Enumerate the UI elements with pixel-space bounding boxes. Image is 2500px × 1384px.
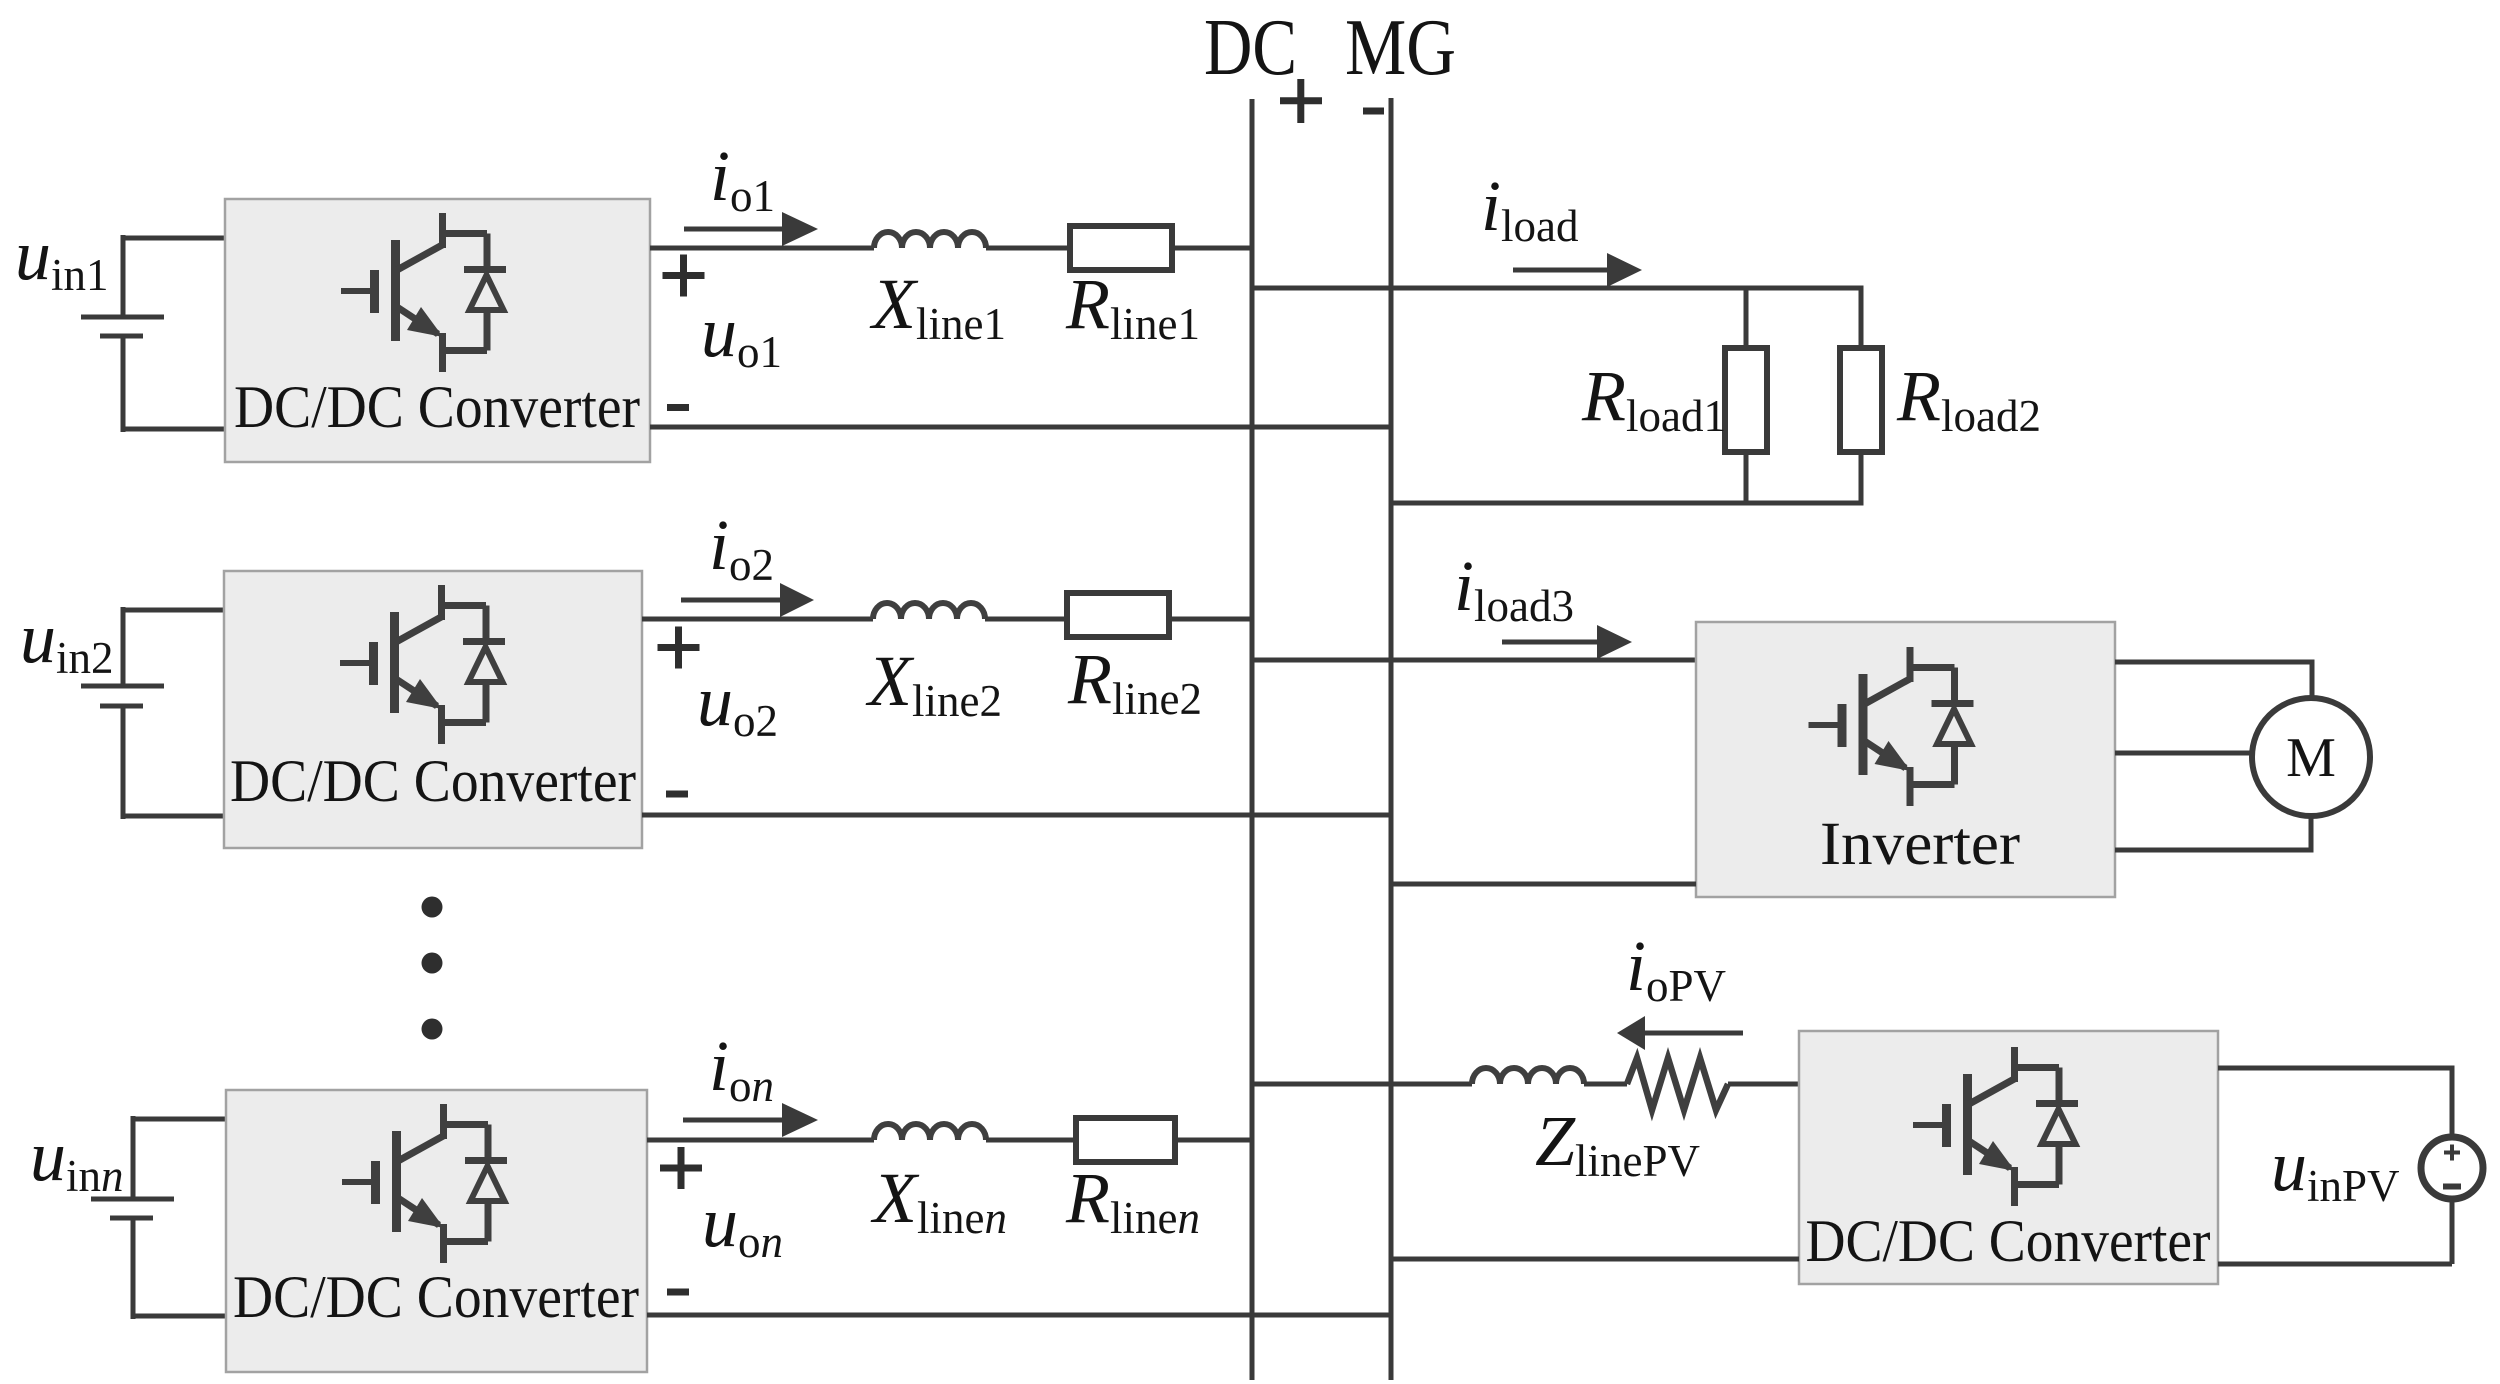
DC/DC converter PV box: [1799, 1031, 2218, 1284]
DC/DC converter 2 box: [224, 571, 642, 848]
node + output polarity converter 2: [658, 627, 700, 669]
battery u_in2 short plate: [100, 704, 143, 709]
transistor IGBT icon converter 1: [341, 213, 506, 372]
node + output polarity converter 1: [663, 255, 705, 297]
svg-text:Inverter: Inverter: [1820, 811, 2020, 878]
wire resistor to positive bus row 2: [1169, 617, 1252, 622]
arrow i_oPV pointing to bus: [1639, 1031, 1743, 1036]
node - output polarity converter n: [667, 1289, 689, 1296]
svg-text:DC/DC Converter: DC/DC Converter: [230, 748, 636, 814]
wire inverter to motor middle phase: [2115, 751, 2252, 756]
wire PV converter return to negative bus: [1391, 1257, 1799, 1262]
wire inductor to resistor row 1: [986, 246, 1070, 251]
inverter box: [1696, 622, 2115, 897]
svg-text:uinPV: uinPV: [2271, 1126, 2400, 1211]
wire PV branch from positive bus: [1252, 1082, 1472, 1087]
wire converter 2 positive output: [642, 617, 873, 622]
wire battery u_in2 bottom lead: [123, 814, 230, 819]
transistor IGBT icon converter n: [342, 1104, 507, 1263]
resistor R_linen: [1076, 1118, 1175, 1162]
resistor R_load2: [1840, 348, 1882, 452]
wire battery u_inn top lead: [133, 1117, 232, 1122]
motor M: [2252, 698, 2370, 816]
wire inductor to resistor Z_linePV: [1584, 1082, 1627, 1087]
svg-text:Rlinen: Rlinen: [1065, 1158, 1200, 1243]
wire battery u_in2 upper vertical: [121, 607, 126, 686]
resistor R_line1: [1070, 226, 1172, 270]
wire i_load3 from positive bus to inverter: [1252, 658, 1696, 663]
svg-text:uon: uon: [702, 1182, 783, 1267]
arrow i_on: [683, 1118, 788, 1123]
svg-text:ZlinePV: ZlinePV: [1535, 1101, 1700, 1186]
wire inverter to motor top phase: [2115, 660, 2312, 699]
svg-text:Rline1: Rline1: [1065, 264, 1200, 349]
transistor IGBT icon converter 2: [340, 585, 505, 744]
inductor X_linen: [874, 1124, 986, 1140]
battery u_in1 short plate: [100, 334, 143, 339]
battery u_inn long plate: [91, 1197, 174, 1202]
node + polarity of positive bus: [1280, 79, 1322, 123]
wire converter 1 positive output: [650, 246, 874, 251]
svg-text:Rload2: Rload2: [1896, 356, 2041, 441]
node - polarity of negative bus: [1363, 108, 1384, 115]
DC/DC converter n box: [226, 1090, 647, 1372]
resistor R_load1: [1725, 348, 1767, 452]
svg-text:Rline2: Rline2: [1067, 639, 1202, 724]
wire converter 2 negative output to negative bus: [642, 813, 1391, 818]
svg-text:MG: MG: [1345, 4, 1456, 92]
source u_inPV circle: [2421, 1137, 2483, 1199]
wire battery u_inn upper vertical: [131, 1116, 136, 1199]
wire PV converter to source top: [2218, 1066, 2452, 1138]
wire inverter return to negative bus: [1391, 882, 1696, 887]
svg-text:uin1: uin1: [15, 215, 109, 300]
svg-text:DC/DC Converter: DC/DC Converter: [234, 374, 640, 440]
svg-text:uinn: uinn: [30, 1116, 124, 1201]
wire i_load from positive bus to loads: [1252, 286, 1861, 291]
battery u_in1 long plate: [81, 315, 164, 320]
wire R_load1 lower lead: [1744, 452, 1749, 503]
wire inductor to resistor row 2: [985, 617, 1067, 622]
svg-text:io1: io1: [710, 136, 775, 221]
arrow i_o1: [684, 227, 788, 232]
wire battery u_in2 lower vertical: [121, 706, 126, 819]
wire converter n negative output to negative bus: [647, 1313, 1391, 1318]
wire resistor to positive bus row n: [1175, 1138, 1252, 1143]
wire inverter to motor bottom phase: [2115, 816, 2311, 853]
inductor X_line2: [873, 603, 985, 619]
wire battery u_in1 lower vertical: [121, 336, 126, 432]
svg-text:DC: DC: [1204, 4, 1297, 92]
wire source bottom to PV converter: [2218, 1199, 2452, 1264]
svg-text:iload: iload: [1481, 166, 1579, 251]
wire battery u_in1 top lead: [123, 236, 231, 241]
node - output polarity converter 2: [666, 791, 688, 798]
svg-text:uo1: uo1: [701, 292, 782, 377]
DC/DC converter 1 box: [225, 199, 650, 462]
wire R_load1 upper lead: [1744, 288, 1749, 348]
wire resistor to positive bus row 1: [1172, 246, 1252, 251]
node - output polarity converter 1: [667, 404, 689, 411]
resistor zigzag part of Z_linePV: [1627, 1058, 1728, 1110]
svg-text:uo2: uo2: [697, 661, 778, 746]
wire converter n positive output: [647, 1138, 874, 1143]
wire converter 1 negative output to negative bus: [650, 425, 1391, 430]
wire battery u_in1 bottom lead: [123, 427, 231, 432]
wire inductor to resistor row n: [986, 1138, 1076, 1143]
svg-text:Rload1: Rload1: [1581, 356, 1726, 441]
svg-text:Xlinen: Xlinen: [870, 1158, 1007, 1243]
svg-text:io2: io2: [709, 505, 774, 590]
wire battery u_inn lower vertical: [131, 1218, 136, 1319]
resistor R_line2: [1067, 593, 1169, 637]
negative DC bus bar: [1389, 98, 1394, 1380]
wire R_load2 upper lead: [1859, 286, 1864, 349]
svg-text:ion: ion: [709, 1026, 774, 1111]
svg-text:DC/DC Converter: DC/DC Converter: [1806, 1208, 2211, 1274]
wire R_load2 lower lead: [1859, 452, 1864, 506]
battery u_in2 long plate: [81, 684, 164, 689]
svg-text:DC/DC Converter: DC/DC Converter: [233, 1264, 639, 1330]
inductor X_line1: [874, 232, 986, 248]
positive DC bus bar: [1250, 99, 1255, 1380]
battery u_inn short plate: [110, 1216, 153, 1221]
svg-text:Xline2: Xline2: [865, 641, 1002, 726]
svg-text:Xline1: Xline1: [869, 264, 1006, 349]
svg-text:M: M: [2286, 727, 2336, 789]
svg-text:iload3: iload3: [1454, 546, 1574, 631]
transistor IGBT icon inverter: [1809, 647, 1974, 806]
arrow i_o2: [681, 598, 786, 603]
svg-text:ioPV: ioPV: [1626, 926, 1726, 1011]
inductor part of Z_linePV: [1472, 1068, 1584, 1084]
node + output polarity converter n: [660, 1147, 702, 1189]
arrow i_load: [1513, 268, 1613, 273]
wire battery u_inn bottom lead: [133, 1314, 232, 1319]
transistor IGBT icon PV converter: [1913, 1047, 2078, 1206]
wire load return to negative bus: [1391, 501, 1861, 506]
arrow i_load3: [1502, 640, 1603, 645]
wire battery u_in2 top lead: [123, 608, 230, 613]
wire Z_linePV to PV converter: [1728, 1082, 1799, 1087]
svg-text:uin2: uin2: [20, 598, 114, 683]
node ellipsis dots between converters: [422, 897, 443, 918]
wire battery u_in1 upper vertical: [121, 235, 126, 317]
